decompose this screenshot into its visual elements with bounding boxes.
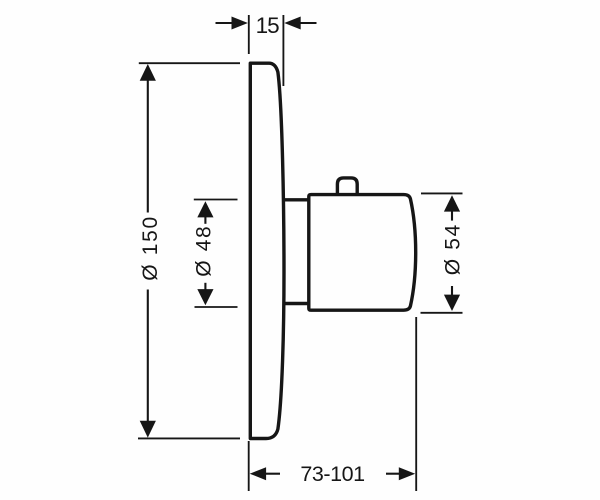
svg-text:Ø 54: Ø 54 [441, 224, 464, 275]
temperature override button tab on knob [337, 178, 357, 194]
dim Ø48: top extension line [194, 199, 238, 201]
dim Ø54: upper tail [451, 211, 453, 221]
dim Ø54: bottom extension line [421, 312, 463, 314]
dim Ø54: up arrowhead [444, 195, 460, 211]
dim 73-101: right extension line [415, 317, 417, 491]
dim 15: right arrow tail [299, 22, 316, 24]
valve stem sleeve top line [283, 198, 309, 201]
svg-text:Ø 150: Ø 150 [139, 217, 162, 281]
dim Ø150: top extension line [139, 62, 240, 64]
dim 73-101: right arrowhead [399, 467, 415, 480]
dim 73-101: left extension line [248, 441, 250, 491]
dim Ø150: dimension line upper segment [147, 80, 149, 213]
svg-text:15: 15 [256, 13, 280, 38]
dim 15: left extension line [248, 15, 250, 54]
dim Ø150: bottom extension line [138, 437, 240, 439]
dim 15: left arrowhead [232, 17, 248, 30]
dim 15: right arrowhead [284, 17, 300, 30]
dim 15: left arrow tail [216, 22, 234, 24]
dim Ø48: upper tail [204, 217, 206, 224]
dim 15: right extension line [282, 15, 284, 86]
dim Ø150: up arrowhead [140, 64, 156, 81]
handle knob body [309, 195, 416, 311]
dim 73-101: left arrow tail [265, 473, 280, 475]
dim 73-101: right arrow tail [386, 473, 401, 475]
dim Ø48: lower tail [204, 283, 206, 290]
dim 73-101: left arrowhead [250, 467, 266, 480]
dim Ø48: bottom extension line [195, 306, 238, 308]
dim Ø48: up arrowhead [197, 201, 213, 217]
dim Ø54: top extension line [421, 192, 463, 194]
dim Ø54: lower tail [451, 286, 453, 296]
escutcheon plate (side profile) [250, 63, 284, 438]
dim Ø48: down arrowhead [197, 289, 213, 305]
dim Ø54: down arrowhead [444, 295, 460, 311]
svg-text:73-101: 73-101 [300, 462, 365, 486]
svg-text:Ø 48: Ø 48 [192, 226, 215, 277]
dim Ø150: dimension line lower segment [147, 290, 149, 422]
valve stem sleeve bottom line [283, 302, 309, 305]
dim Ø150: down arrowhead [140, 421, 156, 438]
